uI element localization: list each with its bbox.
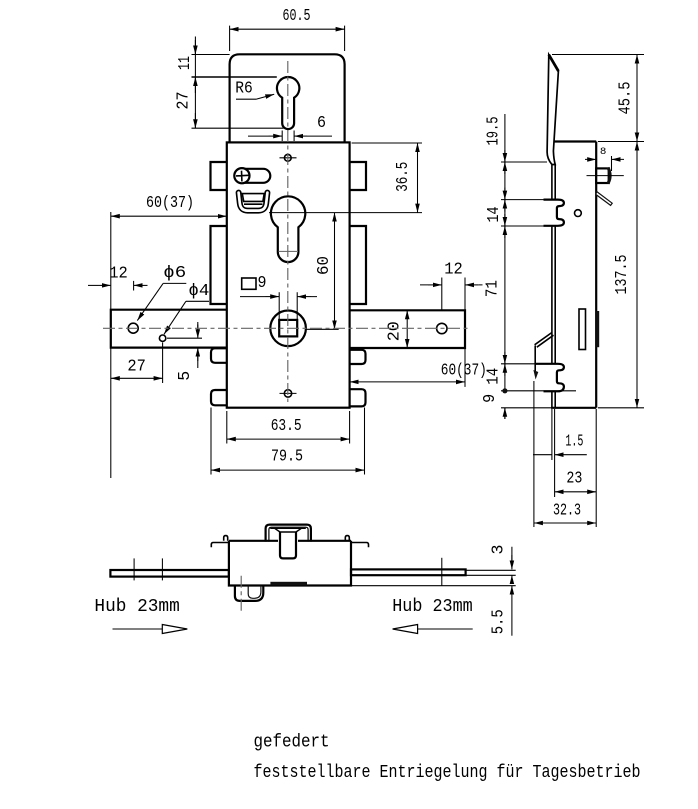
right tab upper bbox=[350, 162, 366, 190]
chain dim extension lines bbox=[501, 162, 576, 408]
svg-text:27: 27 bbox=[175, 92, 194, 110]
dim 60(37) right bbox=[464, 349, 466, 387]
svg-text:60.5: 60.5 bbox=[283, 7, 311, 26]
faceplate bent flag bbox=[547, 55, 558, 165]
locking bolt side bbox=[596, 311, 599, 347]
svg-text:12: 12 bbox=[109, 265, 128, 284]
dim 6 slot bbox=[282, 131, 294, 142]
chain arrow at 407.8 bbox=[504, 408, 506, 419]
bottom foot cup bbox=[235, 586, 263, 601]
euro slot chord line bbox=[279, 250, 299, 252]
screw hole bottom with cross bbox=[284, 390, 291, 397]
left tab long bbox=[211, 226, 227, 304]
dim 5.5 bbox=[511, 586, 513, 600]
svg-text:ϕ6: ϕ6 bbox=[163, 264, 186, 283]
left corner tab upright bbox=[224, 536, 228, 541]
dim 9 square bbox=[279, 292, 297, 320]
chain arrows at 226 bbox=[504, 214, 506, 226]
chain dot at 390.8 bbox=[502, 388, 507, 393]
svg-text:60(37): 60(37) bbox=[441, 362, 487, 381]
dark strip under body bbox=[270, 582, 307, 586]
right arm bar bbox=[350, 310, 465, 348]
side body top edge bbox=[554, 140, 596, 142]
svg-text:27: 27 bbox=[127, 358, 146, 377]
svg-text:23: 23 bbox=[566, 469, 582, 488]
chain arrows at 162 bbox=[504, 150, 506, 162]
svg-text:feststellbare Entriegelung für: feststellbare Entriegelung für Tagesbetr… bbox=[254, 763, 641, 783]
bottom foot claw tip bbox=[533, 370, 538, 380]
dim 79.5 bbox=[211, 408, 365, 475]
svg-text:60: 60 bbox=[315, 256, 334, 275]
label square 9 bbox=[242, 278, 256, 289]
centerline vertical front view bbox=[287, 61, 289, 402]
screw hole top cross tick bbox=[280, 157, 297, 159]
centerline horizontal arms bbox=[103, 327, 471, 329]
svg-text:1.5: 1.5 bbox=[565, 432, 583, 451]
right corner tab upright bbox=[345, 536, 349, 541]
bottom bent foot strip bbox=[535, 333, 554, 348]
dim 12 right arm bbox=[442, 278, 465, 310]
chain arrows at 363.8 bbox=[504, 352, 506, 364]
svg-text:36.5: 36.5 bbox=[394, 162, 413, 192]
top bolt detail bbox=[596, 168, 609, 183]
svg-text:71: 71 bbox=[484, 280, 503, 297]
Hub left stroke arrow bbox=[113, 628, 164, 630]
svg-text:79.5: 79.5 bbox=[271, 448, 303, 467]
cylinder chamfer opening bbox=[270, 528, 306, 532]
svg-text:63.5: 63.5 bbox=[271, 417, 302, 436]
dim 60.5 top bbox=[230, 26, 345, 51]
flag tip thick cut bbox=[549, 55, 559, 71]
svg-text:8: 8 bbox=[600, 147, 607, 158]
svg-text:19.5: 19.5 bbox=[484, 117, 503, 146]
svg-text:60(37): 60(37) bbox=[146, 194, 194, 213]
svg-text:12: 12 bbox=[444, 261, 463, 280]
faceplate right line bbox=[554, 165, 556, 408]
cylinder housing tab outer bbox=[266, 525, 311, 542]
arrow down to 128.2 bbox=[194, 113, 196, 128]
dim 60 vertical bbox=[307, 328, 339, 330]
dim 20 arm height bbox=[406, 310, 408, 348]
svg-text:14: 14 bbox=[485, 368, 504, 385]
BOTTOM VIEW bbox=[94, 525, 515, 636]
right tab long bbox=[350, 226, 366, 304]
CAPTION TEXT bbox=[254, 732, 641, 783]
right tab bottom bbox=[350, 389, 366, 406]
bottom view body bbox=[229, 541, 351, 586]
bottom foot vertical bbox=[534, 346, 536, 372]
dim 12 left bbox=[133, 281, 135, 291]
dim 23 bbox=[595, 409, 597, 527]
svg-text:14: 14 bbox=[485, 207, 504, 223]
foot centerline bbox=[240, 576, 242, 612]
keyhole in cover plate bbox=[277, 77, 299, 129]
left arm hole d6 bbox=[128, 323, 138, 333]
left tab below arm bbox=[211, 348, 227, 363]
svg-text:5: 5 bbox=[176, 371, 195, 381]
left bar hole tick 1 bbox=[133, 558, 135, 580]
left tab upper bbox=[211, 162, 227, 190]
body top edge segments bbox=[229, 540, 351, 542]
screw head in oval slot bbox=[234, 168, 249, 183]
right arm hole bbox=[437, 323, 447, 333]
dim 5 bbox=[167, 322, 202, 368]
faceplate left line bbox=[551, 165, 553, 408]
left arm bar bbox=[111, 310, 227, 348]
dim 63.5 bbox=[227, 411, 350, 444]
svg-text:5.5: 5.5 bbox=[490, 609, 509, 634]
left push bar bbox=[110, 570, 228, 577]
chain arrows at 199.6 bbox=[504, 188, 506, 200]
top bolt face bbox=[608, 168, 610, 184]
right tab below arm bbox=[350, 350, 366, 364]
stirrup inner plate bbox=[242, 194, 264, 205]
bottom spring clip bumps bbox=[536, 364, 564, 392]
left bar hole tick 2 bbox=[161, 558, 163, 580]
svg-text:R6: R6 bbox=[235, 80, 253, 99]
svg-text:9: 9 bbox=[481, 394, 500, 403]
SIDE VIEW bbox=[481, 55, 644, 528]
slot in side plate bbox=[579, 309, 586, 350]
cylinder cover plate bbox=[230, 54, 345, 142]
arrow down to 54.5 bbox=[194, 40, 196, 55]
right bar thin extension bbox=[466, 570, 516, 575]
right corner hook bbox=[351, 543, 369, 548]
small hole side plate bbox=[575, 210, 582, 217]
right bar hole tick bbox=[441, 558, 443, 586]
top spring clip bumps bbox=[544, 200, 564, 226]
right push bar bbox=[351, 569, 466, 575]
dim 60(37) left bbox=[110, 212, 112, 309]
screw head cross bbox=[236, 171, 249, 182]
dim 137.5 bbox=[598, 407, 644, 409]
svg-text:137.5: 137.5 bbox=[613, 255, 632, 295]
svg-text:Hub 23mm: Hub 23mm bbox=[392, 597, 473, 617]
left corner hook bbox=[211, 543, 229, 548]
dim 11/27 line bbox=[194, 37, 196, 129]
euro cylinder hole bbox=[271, 196, 305, 262]
svg-text:gefedert: gefedert bbox=[254, 732, 330, 752]
dim 32.3 bbox=[533, 381, 535, 527]
stirrup strap outline bbox=[239, 193, 268, 211]
screw hole top with cross bbox=[284, 154, 291, 161]
top bolt centerline bbox=[587, 175, 624, 177]
FRONT VIEW bbox=[88, 7, 487, 478]
svg-text:Hub 23mm: Hub 23mm bbox=[94, 597, 179, 617]
svg-text:45.5: 45.5 bbox=[616, 82, 635, 115]
dim 11 / 27 extension lines bbox=[192, 55, 284, 129]
left arm hole d4 bbox=[159, 335, 165, 341]
chain dim line bbox=[504, 114, 506, 419]
dim 45.5 bbox=[552, 55, 644, 142]
dim 1.5 bbox=[533, 409, 555, 497]
dim 3 bar thickness bbox=[352, 547, 516, 586]
svg-text:ϕ4: ϕ4 bbox=[188, 282, 209, 301]
svg-text:3: 3 bbox=[490, 545, 509, 555]
spring leaf diagonal bbox=[596, 192, 612, 206]
dim 27 bottom left bbox=[111, 343, 163, 479]
oval slot bbox=[235, 169, 270, 183]
lock case body bbox=[227, 142, 350, 407]
svg-text:20: 20 bbox=[385, 321, 404, 341]
cylinder housing tab inner bbox=[269, 527, 308, 541]
dim 36.5 bbox=[269, 143, 422, 213]
cylinder stem bbox=[280, 532, 296, 558]
side body bottom edge bbox=[551, 407, 596, 409]
svg-text:9: 9 bbox=[258, 274, 267, 293]
svg-text:6: 6 bbox=[317, 114, 326, 133]
follower square hole bbox=[279, 320, 297, 337]
dim 8 bolt bbox=[585, 156, 624, 171]
screw hole bottom cross tick bbox=[280, 392, 297, 394]
arrow up to 77 bbox=[194, 77, 196, 93]
Hub right stroke arrow bbox=[418, 628, 473, 630]
svg-text:11: 11 bbox=[176, 56, 195, 70]
svg-text:32.3: 32.3 bbox=[553, 502, 581, 521]
side body right edge bbox=[595, 142, 597, 408]
bottom foot inner line bbox=[248, 586, 261, 599]
left tab bottom bbox=[211, 390, 227, 405]
follower circle bbox=[270, 311, 306, 347]
stirrup strap inner white bbox=[239, 193, 268, 211]
